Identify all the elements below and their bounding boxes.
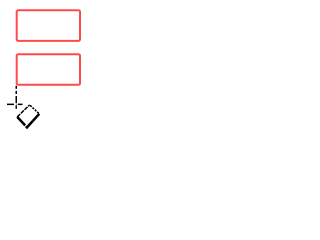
diamond upper-right edge (dotted) — [30, 105, 40, 114]
crosshair center dot — [16, 104, 17, 105]
wire: dashed connector segment 1 — [16, 86, 18, 89]
crosshair horizontal arm left dash — [7, 104, 14, 106]
diamond decision shape (white fill) — [17, 105, 39, 128]
rectangle shape 1 (red highlight outline) — [17, 10, 80, 41]
crosshair vertical arm lower dash — [16, 105, 18, 108]
small gap notch on diamond lower-left edge — [25, 125, 27, 127]
diamond bottom edges (thick solid) — [17, 114, 39, 128]
wire: dashed connector segment 2 — [16, 91, 18, 94]
wire: dashed connector segment 3 (merged with crosshair arm) — [16, 96, 18, 103]
diamond upper-left edge (thin, nearly solid) — [17, 105, 29, 117]
crosshair horizontal arm right dash — [18, 104, 23, 106]
rectangle shape 2 (red highlight outline) — [17, 54, 80, 85]
